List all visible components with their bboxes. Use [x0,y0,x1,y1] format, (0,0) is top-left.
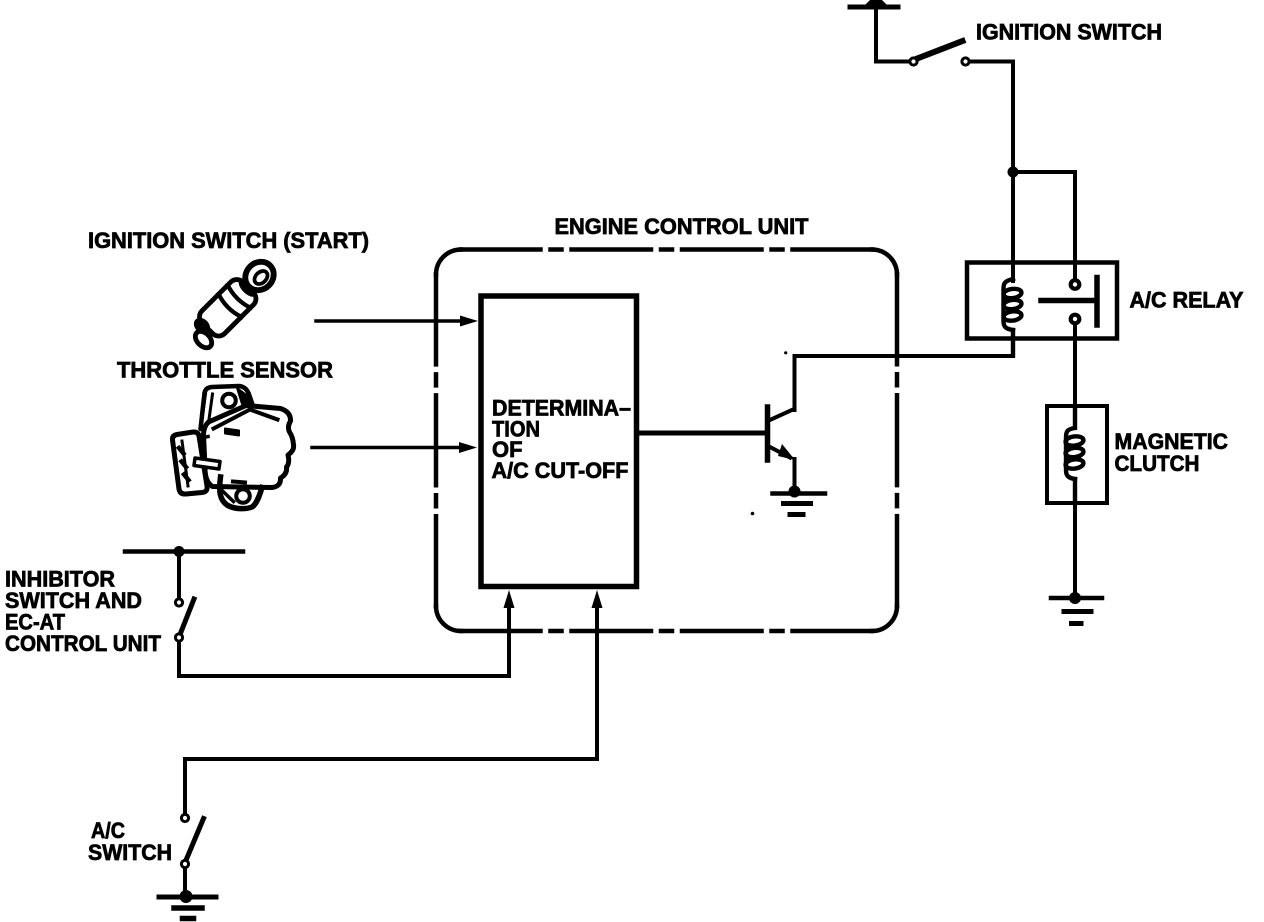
wire inhibitor switch to determination box [179,608,509,676]
node on inhibitor bar [174,546,185,557]
svg-text:CONTROL UNIT: CONTROL UNIT [5,631,162,656]
determination box U1 [481,296,637,587]
inhibitor feed bar [125,549,243,554]
svg-text:IGNITION SWITCH: IGNITION SWITCH [976,20,1162,45]
transistor Q1 [768,356,796,491]
A/C relay box [967,263,1117,339]
ignition switch (start) icon [184,254,282,352]
A/C switch [181,759,203,896]
svg-text:A/C RELAY: A/C RELAY [1130,288,1244,313]
stray dot artifact below transistor [751,512,755,516]
relay coil [1003,279,1022,356]
relay contact [1041,278,1097,326]
wire determination output to transistor base [639,431,765,436]
inhibitor switch [175,552,194,642]
label INHIBITOR SWITCH AND EC-AT CONTROL UNIT [5,567,162,657]
wire ignition switch to junction [971,62,1014,173]
ground (transistor) [773,486,826,515]
label DETERMINATION OF A/C CUT-OFF [492,396,632,483]
throttle sensor icon [172,386,293,509]
arrow into determination box (inhibitor) [504,590,515,608]
stray dot artifact near collector [784,351,787,354]
wire A/C switch to determination box [185,608,597,759]
wire junction to relay coil [1011,172,1015,281]
svg-text:CLUTCH: CLUTCH [1115,451,1200,476]
wire+arrow throttle sensor to determination box [312,442,477,453]
clutch coil [1065,406,1084,503]
wire clutch to ground [1073,503,1077,598]
wire relay contact to magnetic clutch [1073,325,1077,407]
junction node [1008,167,1019,178]
arrow into determination box (A/C switch) [592,590,603,608]
wire battery to ignition switch [876,7,908,62]
ground (A/C switch) [159,890,216,919]
svg-text:A/C CUT-OFF: A/C CUT-OFF [492,458,629,483]
wire+arrow ignition start to determination box [316,316,478,327]
ignition switch [910,41,969,65]
wire collector to relay coil [795,354,1014,358]
battery feed symbol [850,0,898,7]
svg-text:THROTTLE SENSOR: THROTTLE SENSOR [117,358,333,383]
svg-text:SWITCH: SWITCH [88,840,172,865]
magnetic clutch box [1047,406,1107,503]
engine control unit boundary [436,250,897,632]
svg-text:ENGINE CONTROL UNIT: ENGINE CONTROL UNIT [555,214,810,239]
svg-text:IGNITION SWITCH (START): IGNITION SWITCH (START) [88,228,369,253]
wire junction to relay contact [1013,172,1075,279]
ground (clutch) [1051,592,1102,624]
